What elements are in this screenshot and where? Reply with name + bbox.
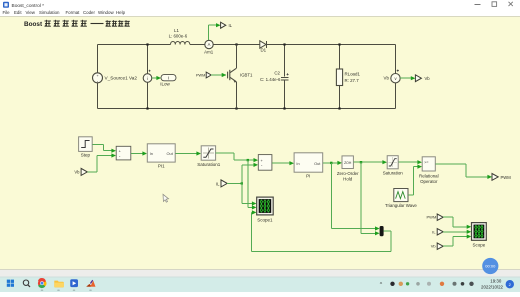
svg-text:>=: >=: [424, 160, 428, 164]
svg-text:Boost_control *: Boost_control *: [12, 3, 45, 9]
svg-text:C2: C2: [274, 70, 280, 75]
svg-text:R: 27.7: R: 27.7: [345, 78, 360, 83]
svg-text:Step: Step: [81, 153, 91, 158]
svg-text:Coder: Coder: [83, 10, 95, 15]
svg-text:Triangular Wave: Triangular Wave: [385, 203, 417, 208]
svg-text:In: In: [150, 151, 153, 156]
svg-text:2022/10/22: 2022/10/22: [481, 284, 504, 289]
svg-text:00:00: 00:00: [485, 264, 496, 269]
svg-text:+: +: [96, 74, 98, 78]
svg-text:PWM: PWM: [501, 175, 512, 180]
svg-text:Am1: Am1: [204, 49, 214, 54]
svg-text:PWM: PWM: [196, 74, 205, 78]
svg-text:Boost: Boost: [24, 21, 43, 28]
svg-text:Operator: Operator: [420, 179, 438, 184]
svg-text:Out: Out: [314, 161, 321, 166]
svg-text:RLoad1: RLoad1: [345, 72, 361, 77]
svg-text:Format: Format: [66, 10, 81, 15]
svg-text:Vb: Vb: [431, 244, 437, 249]
svg-text:Vb: Vb: [74, 169, 80, 174]
svg-text:In: In: [296, 161, 299, 166]
svg-text:Saturation1: Saturation1: [197, 162, 221, 167]
svg-text:L: 600e-6: L: 600e-6: [169, 34, 188, 39]
svg-text:Scope: Scope: [473, 242, 486, 247]
svg-text:Help: Help: [116, 10, 126, 15]
svg-text:ZOH: ZOH: [344, 161, 352, 165]
svg-text:L1: L1: [174, 28, 179, 33]
svg-text:View: View: [26, 10, 36, 15]
svg-text:Edit: Edit: [14, 10, 22, 15]
svg-text:Window: Window: [98, 10, 114, 15]
svg-text:Zero-Order: Zero-Order: [337, 171, 359, 176]
svg-text:Scope1: Scope1: [257, 218, 273, 223]
svg-text:Vb: Vb: [384, 76, 390, 81]
svg-text:Saturation: Saturation: [383, 170, 404, 175]
svg-text:D1: D1: [260, 48, 266, 53]
svg-text:PI1: PI1: [158, 164, 165, 169]
svg-text:Vb: Vb: [425, 76, 431, 81]
svg-text:C: 1.44e-6: C: 1.44e-6: [260, 77, 281, 82]
svg-text:i: i: [147, 76, 148, 81]
svg-text:PI: PI: [306, 173, 310, 178]
svg-text:A: A: [208, 42, 211, 47]
svg-text:Simulation: Simulation: [39, 10, 60, 15]
svg-text:ILow: ILow: [160, 81, 170, 86]
svg-text:Hold: Hold: [343, 177, 353, 182]
svg-text:V_Source1 Va2: V_Source1 Va2: [105, 76, 138, 81]
svg-text:Relational: Relational: [419, 173, 439, 178]
svg-text:Out: Out: [167, 151, 174, 156]
svg-text:19:30: 19:30: [490, 279, 502, 284]
svg-text:File: File: [3, 10, 11, 15]
svg-text:I: I: [168, 75, 169, 80]
svg-text:PWM: PWM: [427, 214, 437, 219]
svg-text:IGBT1: IGBT1: [240, 72, 253, 77]
